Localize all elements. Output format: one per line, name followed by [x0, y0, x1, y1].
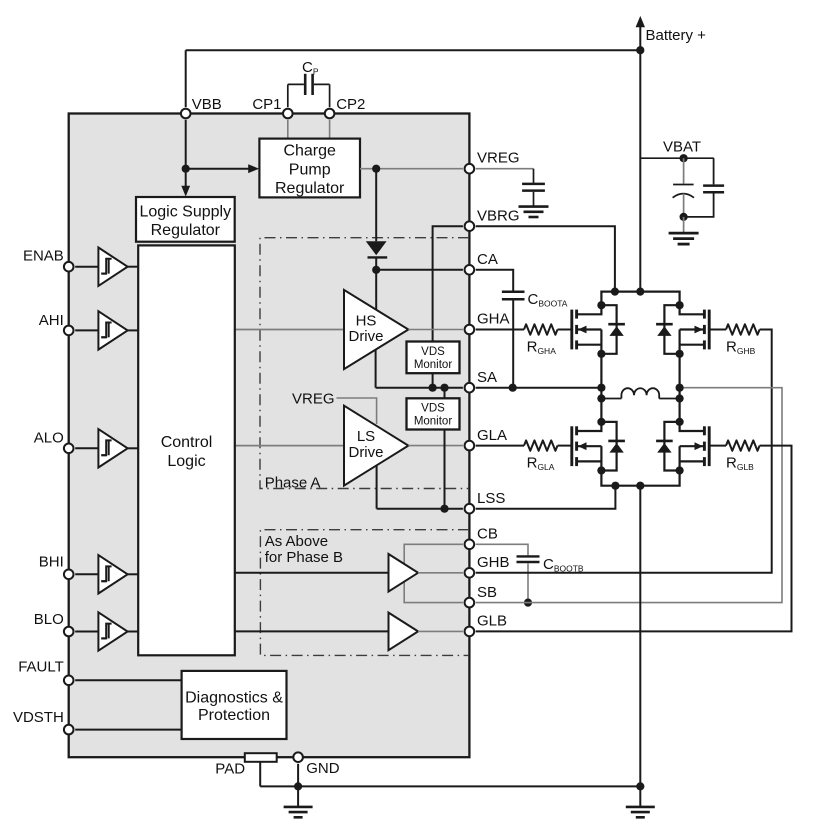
wire: control logic to LS drive — [235, 445, 344, 447]
svg-text:Battery +: Battery + — [646, 27, 707, 44]
pin BHI — [64, 570, 74, 580]
svg-text:Charge: Charge — [283, 142, 336, 159]
pin FAULT — [64, 676, 74, 686]
capacitor C2 at VBAT — [713, 158, 715, 184]
svg-text:Logic: Logic — [167, 453, 205, 470]
wire: buffer to GLB — [418, 630, 463, 632]
svg-text:Pump: Pump — [289, 161, 331, 178]
resistor R_GHB — [726, 324, 760, 334]
pin VREG — [465, 164, 475, 174]
pin GHB — [465, 568, 475, 578]
svg-text:Phase A: Phase A — [265, 475, 321, 492]
Phase A dashed region — [260, 238, 469, 489]
node: battery junction — [636, 46, 644, 54]
wire: R_GHB to gate — [709, 329, 726, 331]
wire: LSS internal — [377, 508, 463, 510]
bridge bottom rail — [601, 470, 679, 485]
wire: battery rail down to bridge — [639, 50, 641, 291]
wire: SB external — [476, 388, 782, 603]
svg-text:GHB: GHB — [477, 554, 510, 571]
svg-text:Drive: Drive — [348, 328, 383, 345]
VDS monitor 1 — [407, 342, 460, 374]
wire: buffer output stub — [127, 329, 139, 331]
schmitt buffer — [98, 429, 127, 467]
pin VBRG — [465, 221, 475, 231]
svg-text:Monitor: Monitor — [414, 416, 453, 428]
svg-text:SB: SB — [477, 584, 497, 601]
wire: buffer output stub — [127, 631, 139, 633]
wire: CB internal loop — [404, 544, 463, 602]
svg-text:VBRG: VBRG — [477, 207, 520, 224]
svg-text:Logic Supply: Logic Supply — [139, 204, 231, 221]
wire: VDSTH — [75, 729, 181, 731]
pin ALO — [64, 444, 74, 454]
Phase B dashed region — [260, 530, 469, 656]
logic supply regulator U2 — [136, 197, 235, 242]
svg-text:Regulator: Regulator — [275, 180, 345, 197]
transistor Q2 (high side B) — [708, 310, 711, 350]
control logic block — [138, 245, 235, 655]
svg-text:Drive: Drive — [348, 444, 383, 461]
node: LSS-VDS2 — [440, 505, 448, 513]
ground (GND pin) — [297, 786, 299, 807]
wire: LS drive output to GLA — [408, 445, 463, 447]
wire: GHA to gate resistor — [476, 329, 524, 331]
ground (battery return) — [626, 806, 655, 809]
wire: VREG external to decoupling cap — [476, 168, 534, 170]
pin VBB — [181, 109, 191, 119]
wire: HS drive output to GHA — [408, 329, 463, 331]
pin CA — [465, 265, 475, 275]
wire: VBB down to distribution node — [185, 120, 187, 169]
pin GND — [293, 752, 303, 762]
node: SA-VDS2 — [440, 384, 448, 392]
pin GLB — [465, 627, 475, 637]
pin GHA — [465, 325, 475, 335]
capacitor (electrolytic) at VBAT — [683, 158, 685, 183]
node: battery to rail — [636, 288, 644, 296]
resistor R_GLA — [524, 440, 558, 450]
svg-text:Diagnostics &: Diagnostics & — [185, 689, 283, 706]
pin GLA — [465, 441, 475, 451]
wire: control logic to phase B low buffer — [235, 630, 389, 632]
capacitor C_BOOTA — [476, 270, 514, 291]
diode (bootstrap charge) — [375, 169, 377, 242]
svg-text:VDS: VDS — [421, 346, 445, 358]
wire: SA external — [476, 387, 602, 389]
pin SA — [465, 383, 475, 393]
wire: FAULT — [75, 679, 181, 681]
svg-text:PAD: PAD — [215, 761, 245, 778]
wire: CA riser to HS drive (behind triangle) — [375, 270, 377, 326]
wire: CP1 into charge pump — [287, 120, 289, 138]
wire: BLO input — [75, 631, 98, 633]
svg-text:Monitor: Monitor — [414, 359, 453, 371]
wire: R_GLB to gate — [709, 445, 726, 447]
IC body (gray) — [69, 114, 470, 758]
wire: VBB to Battery + top rail — [186, 49, 641, 51]
svg-text:LSS: LSS — [477, 490, 505, 507]
wire: VREG stub into LS drive — [337, 398, 377, 424]
node: inductor A — [597, 394, 605, 402]
battery + arrow — [639, 26, 641, 51]
node VBAT — [680, 154, 688, 162]
node: C_BOOTB to SB — [524, 599, 532, 607]
node: VBRG to rail — [611, 288, 619, 296]
node: main ground — [636, 782, 644, 790]
pin AHI — [64, 326, 74, 336]
wire: VBB to Charge Pump (arrow) — [186, 168, 252, 170]
wire: VBB to Logic Supply Regulator (arrow) — [185, 169, 187, 189]
node: SB tap — [676, 384, 684, 392]
wire: GLB external — [476, 446, 792, 632]
ground (VBAT) — [683, 217, 685, 233]
schmitt buffer — [98, 248, 127, 286]
svg-text:ALO: ALO — [34, 429, 64, 446]
svg-text:GLB: GLB — [477, 613, 507, 630]
schmitt buffer — [98, 555, 127, 593]
svg-text:GLA: GLA — [477, 427, 507, 444]
svg-text:CP2: CP2 — [336, 96, 365, 113]
pin CB — [465, 540, 475, 550]
wire: AHI input — [75, 329, 98, 331]
svg-text:VREG: VREG — [292, 391, 335, 408]
wire: CP2 into charge pump — [329, 120, 331, 138]
svg-text:SA: SA — [477, 369, 497, 386]
pin SB — [465, 598, 475, 608]
wire: buffer output stub — [127, 573, 139, 575]
wire: VBAT stub — [640, 157, 714, 159]
svg-text:VDS: VDS — [421, 403, 445, 415]
svg-text:VBAT: VBAT — [663, 139, 701, 156]
node: VBAT cap return — [680, 213, 688, 221]
wire: LSS return riser (behind LS drive) — [376, 455, 378, 509]
wire: SA to VDS2 — [444, 388, 446, 399]
svg-text:VDSTH: VDSTH — [13, 709, 64, 726]
wire: ALO input — [75, 447, 98, 449]
svg-text:CB: CB — [477, 526, 498, 543]
capacitor C_BOOTB — [476, 544, 528, 555]
resistor R_GLB — [726, 440, 760, 450]
node: VBB distribution — [182, 165, 190, 173]
VDS monitor 2 — [407, 398, 460, 429]
transistor Q3 (low side A) — [570, 426, 573, 466]
wire: ENAB input — [75, 266, 98, 268]
wire: R_GHA to gate — [558, 329, 572, 331]
diagnostics & protection block — [182, 671, 287, 739]
bridge top rail — [601, 292, 679, 306]
schmitt buffer — [98, 311, 127, 349]
wire: GHB external — [476, 330, 772, 573]
wire: GLA to gate resistor — [476, 445, 524, 447]
pin ENAB — [64, 262, 74, 272]
wire: phase A node vertical — [600, 354, 602, 422]
wire: VBRG internal to VDS monitor 1 — [433, 226, 463, 341]
buffer: phase B low side — [389, 613, 419, 651]
pin CP2 — [325, 109, 335, 119]
svg-text:CA: CA — [477, 251, 498, 268]
pin LSS — [465, 504, 475, 514]
svg-text:AHI: AHI — [39, 312, 64, 329]
node: LSS to rail — [611, 482, 619, 490]
wire: LSS external — [476, 486, 616, 509]
transistor Q4 (low side B) — [708, 426, 711, 466]
svg-text:LS: LS — [357, 428, 375, 445]
wire: phase B node vertical — [678, 354, 680, 422]
wire: charge pump output to VREG pin — [360, 168, 463, 170]
pin BLO — [64, 627, 74, 637]
pin CP1 — [283, 109, 293, 119]
wire: R_GLA to gate — [558, 445, 572, 447]
op-amp HS Drive — [344, 290, 408, 369]
node: ground leg — [636, 482, 644, 490]
wire: GND pin down — [297, 764, 299, 787]
wire: bridge ground leg — [639, 486, 641, 787]
resistor R_GHA — [524, 324, 558, 334]
node: GND junction — [294, 782, 302, 790]
svg-text:VREG: VREG — [477, 150, 520, 167]
charge pump regulator U1 — [259, 139, 360, 198]
schmitt buffer — [98, 612, 127, 650]
wire: buffer to GHB — [418, 572, 463, 574]
node: SA-VDS1 — [429, 384, 437, 392]
svg-text:for Phase B: for Phase B — [265, 549, 343, 566]
wire: SA return riser (behind HS drive) — [375, 333, 377, 388]
svg-text:GHA: GHA — [477, 311, 510, 328]
inductor (motor load) — [601, 398, 621, 400]
wire: VBRG external to bridge top rail — [476, 226, 615, 291]
svg-text:FAULT: FAULT — [18, 659, 64, 676]
wire: VDS1 to SA — [432, 373, 434, 388]
wire: VDS2 to LSS — [444, 430, 446, 509]
svg-text:Control: Control — [161, 434, 213, 451]
wire: control logic to phase B high buffer — [235, 572, 389, 574]
wire: CA internal to pin — [376, 269, 463, 271]
pin VDSTH — [64, 725, 74, 735]
svg-text:CP1: CP1 — [252, 96, 281, 113]
op-amp LS Drive — [344, 406, 408, 486]
svg-text:BHI: BHI — [39, 554, 64, 571]
capacitor CP — [287, 84, 289, 107]
node: VREG/diode tap — [372, 165, 380, 173]
node: inductor B — [676, 394, 684, 402]
capacitor (VREG decoupling) — [533, 169, 535, 183]
wire: control logic to HS drive — [235, 329, 344, 331]
wire: VBB riser — [185, 50, 187, 107]
transistor Q1 (high side A) — [570, 310, 573, 350]
node: CA internal — [372, 266, 380, 274]
resistor PAD (thermal pad) — [259, 762, 261, 787]
ground (VREG cap) — [519, 205, 549, 208]
buffer: phase B high side — [389, 554, 419, 592]
svg-text:GND: GND — [306, 760, 340, 777]
svg-text:As Above: As Above — [265, 533, 328, 550]
node: C_BOOTA to SA — [509, 384, 517, 392]
node: SA tap — [597, 384, 605, 392]
wire: BHI input — [75, 573, 98, 575]
wire: ground bus — [260, 785, 640, 787]
svg-text:Protection: Protection — [198, 707, 270, 724]
svg-text:VBB: VBB — [192, 96, 222, 113]
wire: buffer output stub — [127, 266, 139, 268]
svg-text:BLO: BLO — [34, 611, 64, 628]
wire: buffer output stub — [127, 447, 139, 449]
svg-text:Regulator: Regulator — [151, 222, 221, 239]
svg-text:ENAB: ENAB — [23, 248, 64, 265]
wire: SA internal — [376, 387, 463, 389]
